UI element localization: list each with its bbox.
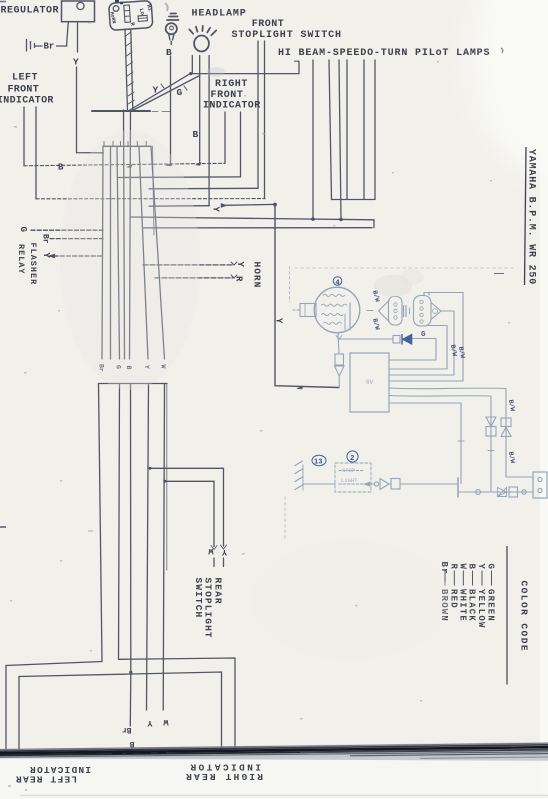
svg-text:Br: Br xyxy=(439,562,449,575)
svg-text:G: G xyxy=(177,87,183,98)
svg-text:RELAY: RELAY xyxy=(16,244,26,275)
svg-text:INDICATOR: INDICATOR xyxy=(29,764,91,775)
svg-text:FRONT: FRONT xyxy=(211,90,244,101)
svg-text:G: G xyxy=(18,227,28,232)
svg-text:Br: Br xyxy=(44,42,55,52)
svg-text:4: 4 xyxy=(335,279,340,287)
svg-text:W: W xyxy=(208,546,214,556)
svg-text:Y: Y xyxy=(476,564,486,571)
svg-text:B: B xyxy=(193,129,199,140)
svg-text:Y: Y xyxy=(147,718,153,728)
svg-text:2: 2 xyxy=(350,455,355,463)
svg-text:ST0P: ST0P xyxy=(342,467,355,474)
svg-text:G: G xyxy=(486,564,496,571)
svg-text:Y: Y xyxy=(211,207,221,213)
svg-text:HORN: HORN xyxy=(252,262,263,289)
svg-text:HEADLAMP: HEADLAMP xyxy=(192,9,247,20)
svg-text:Y: Y xyxy=(274,318,284,324)
svg-text:REGULATOR: REGULATOR xyxy=(1,6,60,17)
svg-text:Y: Y xyxy=(73,57,79,68)
svg-text:INDICATOR: INDICATOR xyxy=(188,762,261,773)
svg-text:Br: Br xyxy=(122,725,132,734)
svg-text:COLOR CODE: COLOR CODE xyxy=(519,581,530,653)
svg-text:STOPLIGHT SWITCH: STOPLIGHT SWITCH xyxy=(232,30,342,41)
svg-text:G: G xyxy=(421,331,426,339)
svg-text:6V: 6V xyxy=(366,379,374,386)
svg-text:FRONT: FRONT xyxy=(252,19,285,30)
svg-text:Y: Y xyxy=(41,253,51,259)
svg-text:Y: Y xyxy=(153,85,159,96)
svg-text:GREEN: GREEN xyxy=(486,589,496,622)
svg-text:W: W xyxy=(163,717,169,727)
svg-text:HI BEAM-SPEEDO-TURN PILoT LAM: HI BEAM-SPEEDO-TURN PILoT LAMPS xyxy=(278,48,490,59)
svg-text:RIGHT REAR: RIGHT REAR xyxy=(184,771,263,782)
svg-text:Br: Br xyxy=(41,234,50,244)
svg-text:Y: Y xyxy=(221,547,227,557)
svg-text:FRONT: FRONT xyxy=(8,85,40,96)
svg-text:Y: Y xyxy=(235,262,245,268)
svg-text:L1GHT: L1GHT xyxy=(341,477,358,484)
svg-text:B: B xyxy=(58,163,64,173)
svg-text:YELLOW: YELLOW xyxy=(476,589,486,629)
svg-text:LEFT REAR: LEFT REAR xyxy=(15,774,77,785)
svg-text:13: 13 xyxy=(314,459,322,467)
svg-text:B: B xyxy=(130,739,135,748)
svg-text:R: R xyxy=(234,276,244,282)
svg-text:INDICATOR: INDICATOR xyxy=(0,96,54,107)
svg-text:YAMAHA B.P.M. WR 250: YAMAHA B.P.M. WR 250 xyxy=(526,149,537,285)
svg-text:RIGHT: RIGHT xyxy=(215,79,248,90)
svg-text:LEFT: LEFT xyxy=(12,73,38,84)
svg-text:FLASHER: FLASHER xyxy=(28,243,38,286)
svg-text:INDICATOR: INDICATOR xyxy=(203,101,261,112)
svg-text:B: B xyxy=(166,47,172,58)
svg-text:SWITCH: SWITCH xyxy=(193,578,204,619)
